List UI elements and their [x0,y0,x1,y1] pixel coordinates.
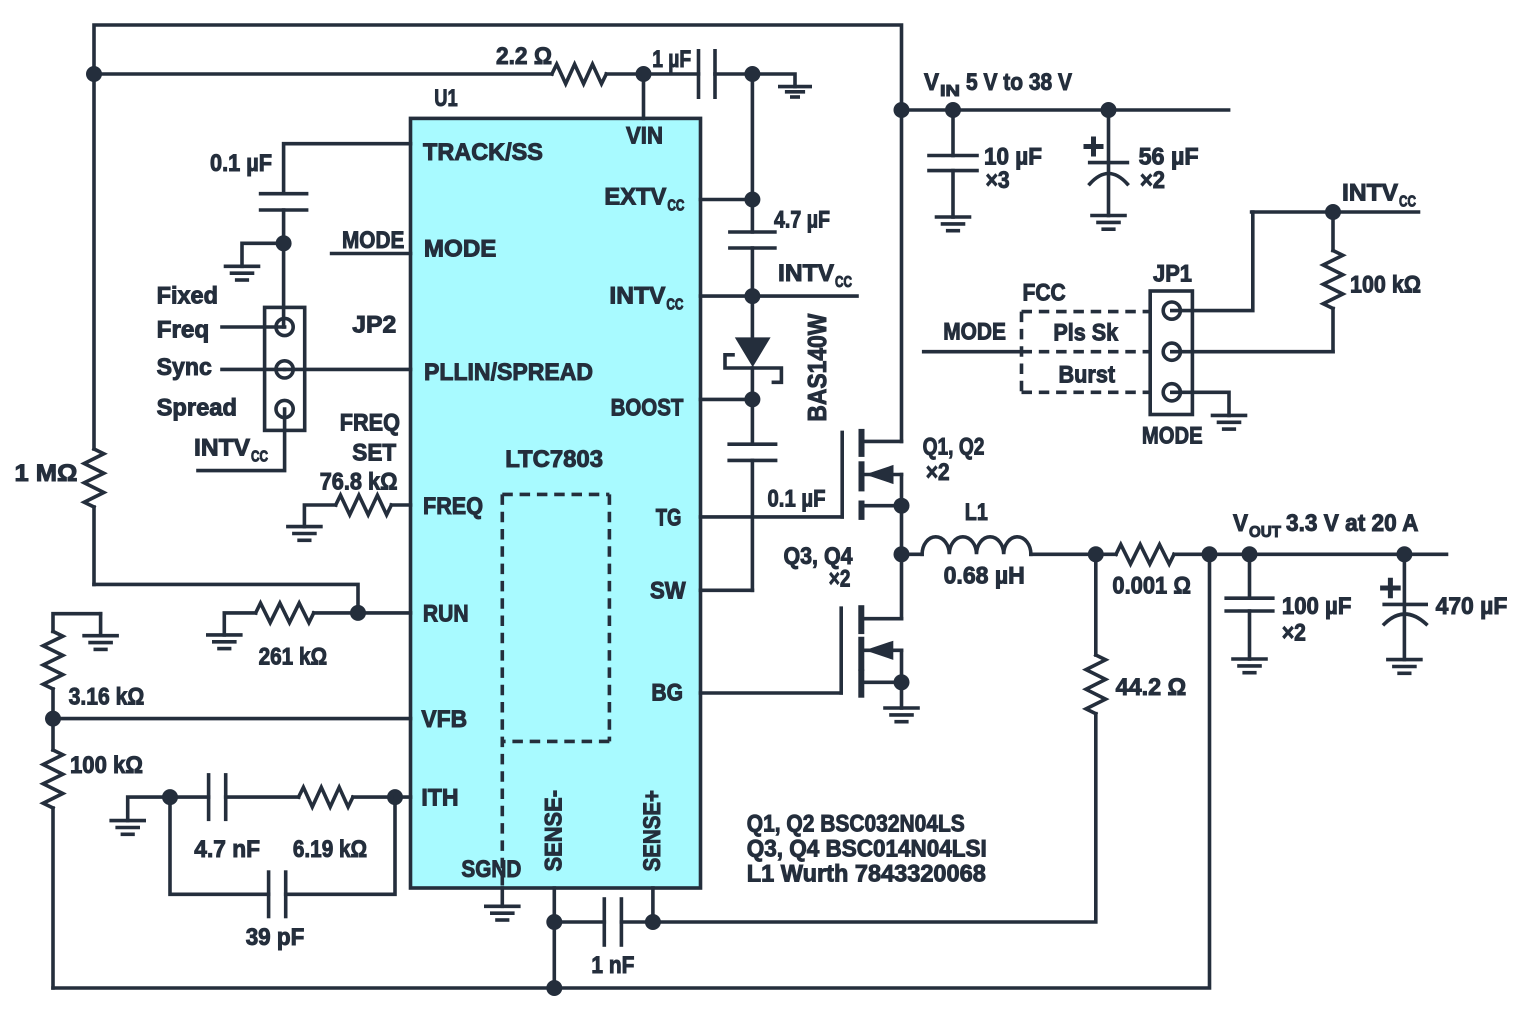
resistor R 76.8k [336,495,392,515]
capacitor C 100uF x2 [1226,596,1273,600]
svg-text:INTV: INTV [1342,180,1398,207]
ground below 100uF [1233,657,1266,661]
wire resistor to VIN node [606,72,643,76]
svg-text:6.19 kΩ: 6.19 kΩ [293,836,367,863]
svg-text:LTC7803: LTC7803 [505,446,603,473]
svg-text:VFB: VFB [421,706,467,733]
wire down to 56uF [1107,110,1111,163]
wire 100uF to ground [1248,611,1252,659]
wire INTVCC pin [701,294,753,298]
svg-text:Sync: Sync [157,354,212,381]
svg-text:76.8 kΩ: 76.8 kΩ [320,468,398,495]
ground 261k [208,633,241,637]
node VIN rail left junction [894,102,910,118]
wire 1uF left lead [644,72,699,76]
wire down to 10uF [951,110,955,156]
wire SW pin [701,588,753,592]
svg-text:0.68 µH: 0.68 µH [944,563,1025,590]
wire left vertical below 1M [92,507,96,584]
svg-text:BG: BG [651,680,683,707]
resistor R 100k pullup [1331,212,1335,251]
svg-text:2.2 Ω: 2.2 Ω [496,43,552,70]
wire junction to ground [242,243,284,266]
svg-text:EXTV: EXTV [604,184,666,211]
wire SW node to Q3 drain [900,554,904,618]
wire to ground right of 1uF [752,74,795,87]
wire 76.8k to ground [304,505,335,527]
svg-text:IN: IN [940,83,960,100]
wire SENSE- pin [552,888,556,988]
capacitor C 10uF x3 [929,154,977,158]
node junction top-left [86,66,102,82]
node bottom rail SENSE junction [546,980,562,996]
capacitor C 39pF [267,872,271,916]
svg-text:INTV: INTV [778,260,834,287]
wire 39pF bypass loop [170,797,395,894]
svg-text:Burst: Burst [1059,362,1116,389]
svg-text:Fixed: Fixed [157,283,218,310]
node VOUT 100uF junction [1242,546,1258,562]
capacitor C 1nF [602,899,606,945]
svg-text:100 kΩ: 100 kΩ [1350,272,1421,299]
wire VIN rail [902,108,1229,112]
wire JP1 pin3 to ground [1172,392,1229,415]
ground track network [226,264,259,268]
wire BOOST to 0.1uF [751,399,755,444]
svg-text:261 kΩ: 261 kΩ [259,643,328,670]
wire 1uF right lead [715,72,752,76]
svg-text:0.1 µF: 0.1 µF [210,150,272,177]
wire BG pin to Q3 gate [701,691,842,695]
wire TG pin to Q1 gate [701,515,843,519]
wire Sync stub [222,368,285,372]
internal dashed block outline [502,494,609,886]
wire EXTVCC pin [701,198,753,202]
svg-text:Freq: Freq [157,317,210,344]
inductor L1 0.68uH [902,552,923,556]
svg-text:MODE: MODE [943,318,1006,345]
wire 44.2 ohm to SENSE+ return [653,714,1096,922]
svg-text:BOOST: BOOST [611,394,684,421]
svg-text:0.1 µF: 0.1 µF [768,486,826,513]
wire diode to BOOST node [751,368,755,399]
svg-text:L1: L1 [965,499,988,526]
svg-text:VIN: VIN [626,123,663,150]
svg-text:×3: ×3 [986,167,1010,194]
svg-text:V: V [1233,510,1248,537]
svg-text:SW: SW [650,578,686,605]
svg-text:4.7 nF: 4.7 nF [194,836,260,863]
svg-text:CC: CC [251,449,268,466]
node INTVCC junction [744,288,760,304]
resistor R 2.2 ohm [552,64,606,84]
capacitor C 0.1uF boost [729,442,775,446]
ground below Q3 [885,706,918,710]
resistor R 44.2 ohm [1094,554,1098,655]
svg-text:470 µF: 470 µF [1436,593,1508,620]
svg-text:SGND: SGND [461,856,521,883]
svg-text:OUT: OUT [1249,524,1281,541]
wire Freq stub [222,325,285,329]
wire ITH pin [395,795,411,799]
svg-text:39 pF: 39 pF [246,924,305,951]
ground below 10uF [937,215,970,219]
svg-text:Q1, Q2 BSC032N04LS: Q1, Q2 BSC032N04LS [747,810,965,837]
svg-text:44.2 Ω: 44.2 Ω [1116,674,1187,701]
wire 0.1uF to SW [751,460,755,590]
svg-text:SENSE+: SENSE+ [639,790,666,871]
svg-text:0.001 Ω: 0.001 Ω [1112,573,1191,600]
node shunt right junction [1202,546,1218,562]
ground right of 1uF [780,85,810,89]
svg-text:SENSE-: SENSE- [541,790,568,871]
wire 56uF to ground [1107,163,1111,216]
wire top rail [94,25,902,449]
FCC dashed selection box [1022,312,1151,393]
resistor R 261k [256,603,314,623]
svg-text:BAS140W: BAS140W [802,313,832,421]
svg-text:1 µF: 1 µF [652,46,691,73]
wire INTVCC net stub [752,294,857,298]
wire MODE select [924,350,1022,354]
op-amp U1 LTC7803 controller IC body [411,118,701,888]
svg-text:SET: SET [352,440,396,467]
svg-text:V: V [924,69,939,96]
transistor Q3 Q4 bottom MOSFET [839,608,843,693]
svg-text:MODE: MODE [1142,422,1203,449]
node EXTVCC junction [744,192,760,208]
wire JP1 pin2 to 100k [1172,350,1333,354]
node 10uF junction [945,102,961,118]
wire second rail to 2.2 ohm resistor [94,72,552,76]
wire INTVCC net line [1252,210,1419,214]
svg-text:PLLIN/SPREAD: PLLIN/SPREAD [424,359,593,386]
resistor R 100k lower divider [51,719,55,750]
connector JP2 [265,307,305,430]
wire PLLIN/SPREAD pin [285,368,411,372]
svg-text:FREQ: FREQ [423,493,483,520]
node inductor output [1088,546,1104,562]
wire down to VIN pin [642,74,646,118]
wire 3.16k top to ground arm [53,614,101,632]
svg-text:3.3 V at 20 A: 3.3 V at 20 A [1286,510,1419,537]
resistor R 1M [84,449,104,507]
resistor R 0.001 ohm shunt [1116,545,1174,565]
node RUN junction [350,605,366,621]
ground SGND [486,904,519,908]
resistor R 3.16k [43,631,63,689]
wire VOUT rail [1210,552,1447,556]
wire ITH series [170,795,209,799]
svg-text:Pls Sk: Pls Sk [1053,319,1118,346]
svg-text:RUN: RUN [423,600,469,627]
svg-text:3.16 kΩ: 3.16 kΩ [69,683,145,710]
transistor Q1 Q2 top MOSFET [840,432,844,517]
wire left vertical to RUN [94,584,358,613]
node INTVCC 100k junction [1325,204,1341,220]
svg-text:1 nF: 1 nF [591,952,634,979]
wire 4.7uF to INTVCC node [751,248,755,296]
node EXTVCC branch junction [744,66,760,82]
wire 1nF leads [554,920,604,924]
ground below 470uF [1388,658,1421,662]
node BOOST junction [744,391,760,407]
ground below JP1 [1213,414,1246,418]
svg-text:JP1: JP1 [1153,261,1192,288]
resistor R 6.19k [299,787,353,807]
svg-text:100 kΩ: 100 kΩ [70,752,143,779]
wire ITH ground arm [128,797,170,821]
svg-text:×2: ×2 [1282,619,1306,646]
svg-text:U1: U1 [434,85,457,112]
svg-text:JP2: JP2 [352,312,396,339]
wire 10uF to ground [951,171,955,217]
svg-text:CC: CC [835,274,852,291]
svg-text:×2: ×2 [926,459,950,486]
wire JP2 pin3 to INTVCC stub [198,409,285,471]
ground below 56uF [1092,214,1125,218]
node ITH right junction [387,789,403,805]
diode D1 BAS140W schottky [751,296,755,337]
svg-text:MODE: MODE [424,236,497,263]
wire SENSE+ pin [651,888,655,922]
node SENSE+ 1nF junction [645,914,661,930]
capacitor C 56uF x2 polarized [1090,161,1128,165]
wire TRACK/SS pin [284,144,411,194]
wire RUN pin [358,611,411,615]
wire bottom rail [53,554,1210,988]
svg-text:5 V to 38 V: 5 V to 38 V [966,69,1072,96]
node ITH left junction [162,789,178,805]
capacitor C 470uF polarized [1384,603,1426,607]
wire 470uF to ground [1403,604,1407,659]
node Q1 source [894,498,910,514]
wire Q1 body-source to SW node [900,475,904,555]
svg-text:MODE: MODE [342,227,404,254]
wire 0.1uF to junction [282,210,286,327]
connector JP1 [1150,291,1192,415]
wire 261k to ground [224,613,255,635]
svg-text:Q3, Q4 BSC014N04LSI: Q3, Q4 BSC014N04LSI [747,836,987,863]
node VOUT 470uF junction [1396,546,1412,562]
node Q3 source [894,674,910,690]
wire down to 470uF [1403,554,1407,604]
svg-text:TG: TG [656,505,682,532]
svg-text:CC: CC [666,297,683,314]
svg-text:INTV: INTV [609,283,665,310]
ground VFB top [99,614,103,636]
capacitor C 4.7nF [207,775,211,819]
ground ITH [111,819,144,823]
capacitor C 0.1uF track [261,192,307,196]
capacitor 1 uF [697,51,701,97]
wire EXTVCC vertical [751,74,755,232]
svg-text:CC: CC [1399,194,1416,211]
node SENSE- 1nF junction [546,914,562,930]
ground FREQ [288,525,321,529]
wire JP1 pin1 to INTVCC [1172,212,1253,311]
wire VFB pin [53,717,411,721]
svg-text:TRACK/SS: TRACK/SS [423,139,543,166]
wire 100k to bottom rail [51,808,55,988]
node VIN pin junction [636,66,652,82]
node VFB junction [45,711,61,727]
svg-text:INTV: INTV [194,435,250,462]
wire down to 100uF [1248,554,1252,598]
svg-text:Q1, Q2: Q1, Q2 [923,434,985,461]
wire SGND ground [500,888,504,906]
capacitor C 4.7uF [730,230,775,234]
wire BOOST pin [701,398,753,402]
svg-text:4.7 µF: 4.7 µF [774,207,830,234]
svg-text:ITH: ITH [421,785,458,812]
wire Q3 source to ground [900,682,904,708]
svg-text:CC: CC [667,198,684,215]
svg-text:1 MΩ: 1 MΩ [15,460,78,487]
svg-text:100 µF: 100 µF [1282,593,1352,620]
svg-text:Spread: Spread [157,394,237,421]
svg-text:FCC: FCC [1023,279,1066,306]
svg-text:×2: ×2 [1140,167,1165,194]
wire VIN to Q1 drain [900,110,904,441]
svg-text:L1 Wurth 7843320068: L1 Wurth 7843320068 [747,861,986,888]
node SW switch node [894,546,910,562]
wire Q3 body to source [900,650,904,682]
svg-text:FREQ: FREQ [340,409,400,436]
node track cap junction [276,235,292,251]
svg-text:×2: ×2 [829,566,851,593]
node 56uF junction [1101,102,1117,118]
wire 3.16k to VFB node [51,689,55,719]
